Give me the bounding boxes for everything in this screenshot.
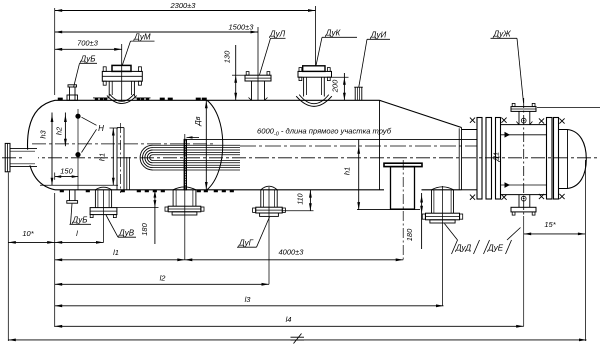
svg-text:ДуИ: ДуИ	[370, 30, 387, 39]
top tube row centerline long	[240, 145, 477, 147]
svg-text:l2: l2	[160, 274, 167, 283]
dim l1	[55, 259, 185, 261]
dim total length with break mark	[8, 339, 586, 341]
shell end girth weld seam	[379, 100, 381, 190]
svg-text:l1: l1	[113, 248, 119, 257]
DuG centerline ext	[268, 187, 270, 284]
tube legs lower rows	[153, 159, 241, 161]
dim l3	[55, 305, 444, 307]
svg-text:10*: 10*	[22, 229, 34, 238]
nozzle at 4000 ref	[173, 187, 196, 190]
svg-text:180: 180	[140, 222, 149, 235]
weir (overflow baffle) hatched	[184, 139, 186, 189]
shell bottom ticks	[60, 190, 64, 192]
svg-text:ДуБ: ДуБ	[80, 55, 96, 64]
dim 180 left (DuV)	[117, 207, 159, 209]
level mark upper dot	[75, 114, 80, 119]
weir height tick	[187, 136, 200, 138]
channel barrel	[501, 124, 547, 126]
level mark lower dot	[75, 152, 80, 157]
dim h1 right	[358, 139, 360, 209]
svg-text:2300±3: 2300±3	[170, 1, 197, 10]
cone top (eccentric transition)	[380, 100, 462, 127]
left elliptical head	[28, 100, 56, 190]
svg-text:h2: h2	[55, 126, 64, 135]
dim Dv	[205, 100, 207, 190]
internal downcomer lines	[126, 157, 128, 190]
svg-text:150: 150	[60, 167, 73, 176]
nozzle DuB bottom	[69, 190, 71, 201]
nozzle DuG	[261, 186, 277, 190]
dim 1500	[55, 31, 258, 33]
nozzle DuK	[303, 66, 325, 72]
svg-text:ДуЕ: ДуЕ	[487, 244, 504, 253]
svg-text:4000±3: 4000±3	[279, 248, 305, 257]
svg-text:15*: 15*	[544, 220, 556, 229]
svg-text:h1: h1	[343, 167, 352, 175]
DuK centerline	[315, 6, 317, 66]
U-tube bundle bends	[140, 145, 152, 170]
dim l	[55, 241, 104, 243]
shell top ticks	[95, 98, 98, 100]
level pipe top reference	[110, 127, 119, 129]
nozzle DuZh	[511, 107, 536, 112]
right elliptical head	[559, 129, 568, 131]
nozzle DuL	[245, 75, 271, 81]
dim 130	[232, 74, 245, 76]
level line lower reference	[40, 184, 118, 186]
dim h3	[51, 113, 53, 186]
svg-text:Д1: Д1	[492, 152, 501, 162]
level pipe	[117, 127, 124, 129]
liquid level line over weir	[187, 138, 478, 140]
svg-text:ДуК: ДуК	[325, 28, 342, 37]
small cylinder after cone	[462, 129, 478, 131]
support saddle body	[391, 167, 415, 210]
shell top line	[55, 99, 380, 101]
dim 700	[55, 48, 122, 50]
svg-text:l4: l4	[286, 315, 292, 324]
dim l2	[55, 283, 269, 285]
dim h2	[64, 113, 66, 147]
channel inner wall lines with weld triangles	[501, 134, 547, 136]
shell bottom line	[55, 189, 384, 191]
main flange pair with tube sheet	[477, 118, 482, 200]
nozzle DuM	[112, 65, 131, 71]
big shell axis centerline	[32, 143, 213, 145]
extension line x=585.4 (right head apex)	[584, 160, 586, 341]
svg-text:ДуБ: ДуБ	[72, 215, 88, 224]
dim 150	[55, 176, 78, 178]
internal dished end (Dv boundary)	[207, 100, 223, 190]
nozzle DuB top	[69, 87, 71, 101]
svg-text:Дв: Дв	[193, 116, 202, 126]
svg-text:ДуМ: ДуМ	[133, 32, 151, 41]
svg-text:ДуЛ: ДуЛ	[269, 29, 286, 38]
svg-text:ДуГ: ДуГ	[238, 238, 254, 247]
nozzle DuV	[95, 187, 111, 190]
nozzle DuD	[432, 187, 454, 190]
svg-text:l3: l3	[245, 295, 252, 304]
main bundle axis centerline	[2, 157, 598, 159]
DuZh/DuE centerline	[523, 98, 525, 216]
svg-text:180: 180	[405, 228, 414, 241]
svg-text:700±3: 700±3	[77, 39, 99, 48]
svg-text:h3: h3	[39, 130, 48, 139]
svg-text:110: 110	[298, 193, 305, 204]
cone end weld seam	[461, 128, 463, 190]
dim h1 left	[112, 128, 114, 185]
dim 110 (DuG)	[282, 210, 313, 212]
svg-text:ДуЖ: ДуЖ	[492, 29, 511, 38]
rear flange pair	[547, 118, 553, 200]
nozzle DuI (small)	[354, 87, 356, 100]
dim 15*	[524, 233, 586, 235]
DuZh flange face line to edge	[537, 107, 600, 109]
nozzle DuE	[518, 195, 520, 208]
svg-text:ДуД: ДуД	[455, 244, 472, 253]
svg-text:ДуВ: ДуВ	[118, 228, 135, 237]
support centerline	[402, 160, 404, 260]
extension line x=55 (head tangent)	[54, 8, 56, 95]
DuL centerline	[257, 27, 259, 100]
svg-text:1500±3: 1500±3	[229, 23, 255, 32]
svg-text:Н: Н	[98, 124, 104, 133]
dim 2300	[55, 10, 316, 12]
svg-text:130: 130	[223, 50, 232, 63]
svg-text:200: 200	[331, 79, 340, 93]
dim l4	[55, 325, 524, 327]
dim 10*	[8, 241, 54, 243]
DuM centerline	[121, 44, 123, 101]
nozzle-184.5 centerline ext	[184, 134, 186, 260]
DuD centerline ext	[442, 186, 444, 306]
dim 200	[332, 76, 349, 78]
left nozzle flange	[5, 143, 10, 171]
weld pad line near DuM	[93, 97, 109, 99]
weld X marks main flange	[470, 118, 475, 123]
foundation base line	[357, 209, 420, 211]
tube legs upper rows	[153, 144, 241, 146]
dim 4000	[185, 259, 403, 261]
support saddle top plate	[384, 163, 422, 166]
DuV centerline ext	[103, 190, 105, 243]
svg-text:h1: h1	[98, 153, 107, 161]
left nozzle pipe	[10, 148, 37, 150]
extension line x=8.3 (left flange face)	[7, 173, 9, 342]
dim 180 right (DuD)	[421, 193, 423, 249]
